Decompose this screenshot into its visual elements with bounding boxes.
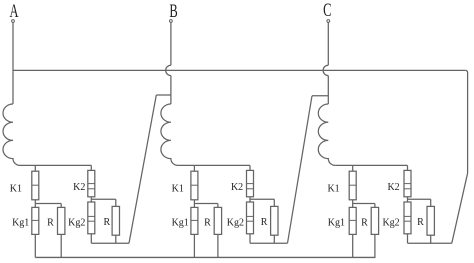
contactor Kg2 (phase C) xyxy=(404,202,411,234)
wire: phase B lead upper segment xyxy=(170,22,172,65)
contactor K1 (phase C) xyxy=(349,171,356,200)
wire: diagonal from phase B tap to phase A Kg2/R bottom xyxy=(129,95,156,243)
svg-text:R: R xyxy=(261,217,268,228)
inductor LC (phase C winding) xyxy=(318,104,335,165)
wire: drop to K1 (A) xyxy=(34,165,36,171)
contactor Kg2 (phase B) xyxy=(247,202,254,234)
wire: drop to K1 (B) xyxy=(193,165,195,171)
contactor K2 (phase A) xyxy=(88,170,95,196)
resistor R (phase B branch 2) xyxy=(271,206,278,235)
wire crossover hop (phase C lead over top bus) xyxy=(323,65,328,75)
wire: phase C lead lower segment xyxy=(327,76,329,104)
terminal B xyxy=(170,20,173,23)
svg-text:Kg1: Kg1 xyxy=(328,217,345,228)
svg-text:R: R xyxy=(417,217,424,228)
contactor Kg1 (phase A) xyxy=(32,207,39,234)
wire: K2 to Kg2/R junction (C) xyxy=(408,197,431,207)
wire: drop to K1 (C) xyxy=(352,165,354,171)
wire: top bus from phase A lead xyxy=(13,69,465,71)
inductor LA (phase A winding) xyxy=(3,104,20,165)
wire: winding A output bus xyxy=(20,164,91,166)
wire: diagonal from right edge to phase C Kg2/R bottom xyxy=(452,173,468,243)
wire: K1 to Kg1/R junction (C) xyxy=(353,200,375,208)
contactor K2 (phase C) xyxy=(404,170,411,196)
contactor K2 (phase B) xyxy=(247,170,254,196)
svg-text:K2: K2 xyxy=(387,182,399,193)
svg-text:Kg2: Kg2 xyxy=(382,217,399,228)
svg-text:Kg1: Kg1 xyxy=(172,217,189,228)
svg-text:C: C xyxy=(323,0,331,20)
resistor R (phase C branch 1) xyxy=(371,207,378,234)
wire: Kg1 bottom to star bus (B) xyxy=(193,234,195,257)
wire: drop to K2 (B) xyxy=(249,165,251,170)
wire: star-point bottom bus xyxy=(35,256,375,258)
resistor R (phase A branch 2) xyxy=(112,206,119,235)
wire: K2 to Kg2/R junction (A) xyxy=(91,197,116,207)
svg-text:K1: K1 xyxy=(172,183,184,194)
svg-text:K1: K1 xyxy=(327,183,339,194)
wire: Kg1 bottom to star bus (A) xyxy=(34,234,36,257)
contactor Kg1 (phase B) xyxy=(191,207,198,234)
resistor R (phase C branch 2) xyxy=(427,206,434,235)
svg-text:K1: K1 xyxy=(10,183,22,194)
svg-text:Kg2: Kg2 xyxy=(68,217,85,228)
resistor R (phase B branch 1) xyxy=(214,207,221,234)
contactor K1 (phase B) xyxy=(191,171,198,200)
svg-text:B: B xyxy=(169,1,177,21)
resistor R (phase A branch 1) xyxy=(58,207,65,234)
contactor K1 (phase A) xyxy=(32,171,39,200)
wire: Kg2/R bottom tie (C) xyxy=(408,234,452,243)
svg-text:A: A xyxy=(9,1,18,21)
wire: R bottom to star bus (A branch 1) xyxy=(60,234,62,257)
wire: K2 to Kg2/R junction (B) xyxy=(250,197,274,207)
wire: Kg2/R bottom tie (B) xyxy=(250,234,288,243)
wire: winding C output bus xyxy=(335,164,407,166)
wire: tap from phase C lead xyxy=(312,95,328,97)
svg-text:R: R xyxy=(47,217,54,228)
svg-text:Kg2: Kg2 xyxy=(227,217,244,228)
wire: Kg1 bottom to star bus (C) xyxy=(352,234,354,257)
wire: K1 to Kg1/R junction (A) xyxy=(35,200,61,208)
wire: phase A lead down to winding xyxy=(12,22,14,104)
svg-text:K2: K2 xyxy=(73,182,85,193)
wire crossover hop (phase B lead over top bus) xyxy=(166,65,171,75)
svg-text:Kg1: Kg1 xyxy=(12,217,29,228)
wire: right edge drop of top bus xyxy=(465,70,467,173)
wire: tap from phase B lead xyxy=(156,94,171,96)
wire: winding B output bus xyxy=(178,164,250,166)
wire: phase B lead lower segment xyxy=(170,76,172,104)
svg-text:R: R xyxy=(361,217,368,228)
wire: R bottom to star bus (C branch 1) xyxy=(374,234,376,257)
wire: drop to K2 (C) xyxy=(407,165,409,170)
wire: drop to K2 (A) xyxy=(90,165,92,170)
contactor Kg1 (phase C) xyxy=(349,207,356,234)
contactor Kg2 (phase A) xyxy=(88,202,95,234)
svg-text:R: R xyxy=(204,217,211,228)
wire: Kg2/R bottom tie (A) xyxy=(91,234,129,243)
wire: R bottom to star bus (B branch 1) xyxy=(217,234,219,257)
terminal C xyxy=(327,20,330,23)
inductor LB (phase B winding) xyxy=(161,104,178,165)
svg-text:K2: K2 xyxy=(231,182,243,193)
terminal A xyxy=(12,20,15,23)
wire: diagonal from phase C tap to phase B Kg2/R bottom xyxy=(288,96,313,243)
svg-text:R: R xyxy=(103,217,110,228)
wire: K1 to Kg1/R junction (B) xyxy=(194,200,218,208)
wire: phase C lead upper segment xyxy=(327,22,329,65)
